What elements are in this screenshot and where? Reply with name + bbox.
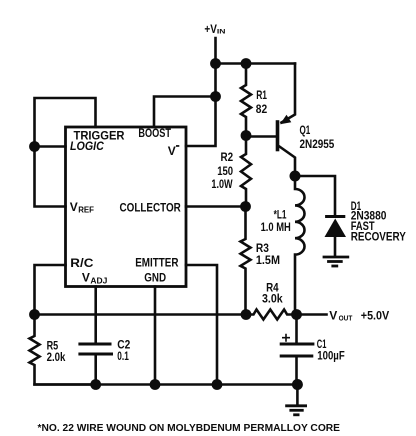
wire to diode branch	[295, 176, 335, 215]
svg-text:REF: REF	[78, 204, 94, 214]
node junction dot VIN rail	[210, 58, 221, 69]
svg-text:1.0 MH: 1.0 MH	[261, 220, 291, 234]
node junction dot R3/R4/rail	[241, 309, 252, 320]
pin VREF label	[70, 200, 94, 214]
svg-text:V: V	[168, 144, 176, 158]
pin GND label	[144, 270, 166, 284]
wire TRIGGER loop to VREF	[35, 98, 96, 207]
svg-text:+5.0V: +5.0V	[361, 308, 389, 322]
node junction dot VOUT	[291, 309, 302, 320]
svg-text:2.0k: 2.0k	[47, 350, 66, 364]
op-amp U1 regulator box	[66, 127, 187, 287]
pin label BOOST	[138, 126, 171, 140]
ground (main)	[285, 385, 307, 415]
svg-text:Q1: Q1	[300, 123, 311, 137]
node junction dot C2 ground	[90, 379, 101, 390]
svg-text:82: 82	[256, 102, 268, 116]
svg-text:R2: R2	[221, 150, 234, 164]
node +VIN label	[204, 22, 226, 36]
wire R/C pin down to mid rail	[35, 265, 66, 315]
resistor R3	[241, 207, 281, 315]
svg-text:COLLECTOR: COLLECTOR	[120, 201, 182, 215]
svg-text:V: V	[70, 200, 78, 214]
pin V- label	[168, 144, 180, 158]
resistor R1	[241, 64, 267, 136]
svg-text:R1: R1	[256, 88, 267, 102]
node junction dot C1 ground	[292, 379, 303, 390]
node note text	[38, 423, 341, 434]
resistor R2	[211, 136, 251, 207]
node junction dot emitter ground	[212, 379, 223, 390]
node junction dot R1 bottom / base	[241, 130, 252, 141]
svg-text:3.0k: 3.0k	[262, 291, 283, 305]
resistor R4	[246, 280, 297, 319]
svg-text:1.5M: 1.5M	[256, 253, 280, 267]
svg-text:EMITTER: EMITTER	[135, 256, 179, 270]
svg-text:*NO. 22 WIRE WOUND ON MOLYBDEN: *NO. 22 WIRE WOUND ON MOLYBDENUM PERMALL…	[38, 423, 341, 434]
svg-text:LOGIC: LOGIC	[70, 139, 104, 153]
node junction dot R/C rail	[29, 309, 40, 320]
svg-text:V: V	[329, 308, 337, 322]
capacitor C2	[78, 338, 130, 385]
node junction dot GND pin ground	[150, 379, 161, 390]
node junction dot Q1 collector / L1 / D1	[290, 171, 301, 182]
node label VOUT +5.0V	[329, 308, 389, 322]
svg-text:RECOVERY: RECOVERY	[351, 229, 406, 243]
inductor L1	[261, 176, 305, 315]
wire base	[246, 135, 276, 138]
ground (diode D1)	[323, 257, 350, 266]
wire LOGIC pin stub	[35, 145, 66, 148]
capacitor C1	[280, 315, 345, 385]
node junction dot LOGIC	[29, 141, 40, 152]
svg-text:0.1: 0.1	[117, 349, 129, 363]
svg-text:R/C: R/C	[70, 256, 93, 270]
wire BOOST loop	[154, 97, 216, 128]
svg-text:IN: IN	[217, 29, 226, 36]
pin VADJ label	[82, 271, 108, 286]
wire VADJ stub down to C2	[94, 287, 97, 343]
resistor R5	[30, 315, 96, 385]
svg-text:100µF: 100µF	[317, 348, 344, 362]
svg-text:V: V	[82, 271, 90, 285]
wire VOUT	[297, 313, 327, 316]
pin R/C label	[70, 256, 93, 270]
pin label TRIGGER	[74, 128, 125, 142]
svg-text:1.0W: 1.0W	[211, 177, 233, 191]
node junction dot BOOST/VIN	[210, 91, 221, 102]
wire top rail y=63.5	[216, 62, 296, 65]
pin label LOGIC	[70, 139, 104, 153]
node junction dot collector/R2/R3	[240, 201, 251, 212]
svg-text:BOOST: BOOST	[138, 126, 171, 140]
node junction dot R1 top	[241, 58, 252, 69]
wire GND stub down to ground rail	[154, 287, 157, 385]
svg-text:+V: +V	[204, 22, 217, 36]
svg-text:150: 150	[217, 164, 233, 178]
svg-text:GND: GND	[144, 270, 166, 284]
wire +VIN vertical down to V- pin corner	[186, 38, 216, 146]
wire COLLECTOR pin to R2/R3 node	[186, 205, 246, 208]
pin EMITTER label	[135, 256, 179, 270]
svg-text:ADJ: ADJ	[90, 276, 107, 285]
pin COLLECTOR label	[120, 201, 182, 215]
transistor Q1	[278, 64, 335, 177]
svg-text:OUT: OUT	[339, 314, 353, 323]
svg-text:2N2955: 2N2955	[300, 137, 335, 151]
wire ground rail	[35, 383, 298, 386]
diode D1	[325, 199, 406, 255]
wire mid rail y=314.5	[35, 313, 247, 316]
wire EMITTER pin down to ground rail	[186, 265, 217, 385]
